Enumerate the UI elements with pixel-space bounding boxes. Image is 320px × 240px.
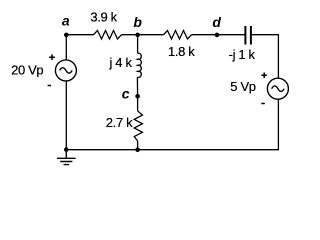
node a dot bbox=[64, 33, 69, 38]
label + of V1 bbox=[49, 54, 55, 60]
wire 1.8k-to-d bbox=[192, 34, 218, 36]
svg-text:3.9 k: 3.9 k bbox=[90, 10, 117, 25]
wire c-to-2.7k bbox=[137, 96, 139, 111]
wire 3.9k-to-b bbox=[122, 34, 138, 36]
svg-text:20 Vp: 20 Vp bbox=[11, 62, 43, 77]
bottom wire bbox=[66, 149, 278, 151]
resistor R2 1.8 k bbox=[164, 31, 192, 40]
svg-text:j 4 k: j 4 k bbox=[109, 55, 133, 70]
node b dot bbox=[135, 33, 140, 38]
svg-text:5 Vp: 5 Vp bbox=[230, 79, 255, 94]
inductor L1 j 4 k bbox=[137, 53, 141, 77]
svg-text:-j 1 k: -j 1 k bbox=[229, 47, 256, 62]
svg-text:a: a bbox=[62, 13, 70, 29]
source V1 sine bbox=[60, 68, 73, 74]
label + of V2 bbox=[261, 73, 267, 79]
svg-text:d: d bbox=[212, 14, 221, 30]
resistor R3 2.7 k bbox=[134, 111, 142, 141]
wire inductor-to-c bbox=[136, 77, 138, 96]
wire a-to-3.9k bbox=[66, 34, 93, 36]
svg-text:1.8 k: 1.8 k bbox=[168, 44, 195, 59]
source V2 sine bbox=[272, 86, 285, 92]
svg-text:b: b bbox=[133, 14, 142, 30]
label - of V2 bbox=[261, 103, 265, 105]
wire b-to-1.8k bbox=[138, 34, 164, 36]
node c dot bbox=[135, 94, 140, 99]
source V1 20 Vp circle bbox=[55, 60, 76, 81]
node d dot bbox=[215, 33, 220, 38]
label - of V1 bbox=[48, 85, 52, 87]
ground bbox=[57, 150, 76, 165]
wire d-to-capacitor bbox=[217, 34, 245, 36]
junction dot bottom middle bbox=[135, 148, 140, 153]
wire b-down-to-inductor bbox=[137, 35, 139, 54]
svg-text:2.7 k: 2.7 k bbox=[106, 115, 133, 130]
wire source-to-bottom-right bbox=[277, 100, 279, 151]
junction dot ground bbox=[64, 147, 69, 152]
resistor R1 3.9 k bbox=[94, 31, 122, 40]
wire right-down-to-source bbox=[277, 34, 279, 78]
wire 2.7k-to-bottom bbox=[137, 141, 139, 150]
wire capacitor-to-corner bbox=[252, 34, 279, 36]
source V2 5 Vp circle bbox=[267, 78, 288, 99]
wire source-down-to-ground bbox=[65, 81, 67, 149]
capacitor C1 -j 1 k bbox=[245, 26, 251, 45]
svg-text:c: c bbox=[122, 85, 130, 101]
wire a-down-to-source bbox=[65, 35, 67, 60]
